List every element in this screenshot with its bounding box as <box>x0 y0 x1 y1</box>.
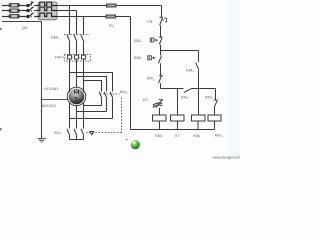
tap C to KM-delta left <box>84 81 102 92</box>
PE down wire <box>41 22 43 139</box>
svg-text:KM△: KM△ <box>215 133 224 138</box>
fuse L3 body <box>9 14 19 18</box>
svg-text:FU: FU <box>109 24 114 28</box>
KT coil feed <box>177 89 179 116</box>
svg-text:KM△: KM△ <box>147 77 156 82</box>
breaker element L2 <box>38 7 57 10</box>
svg-text:KT: KT <box>143 97 149 102</box>
svg-text:KMY: KMY <box>205 96 213 101</box>
breaker block QF body <box>38 2 57 20</box>
fuse left bodies <box>9 3 19 18</box>
KM1 self-hold contact <box>196 51 199 116</box>
QS linkage dashed <box>31 1 33 17</box>
wire phase C down to motor <box>83 59 85 129</box>
switch QS pole 1 <box>27 4 29 6</box>
SB2 NO contact <box>158 51 161 76</box>
wire L3 block to control <box>57 16 131 18</box>
breaker element L1 <box>38 2 57 5</box>
wire L2 to QS <box>20 10 27 12</box>
FR linkage dashes <box>72 56 82 58</box>
thermal relay FR heater B <box>75 55 79 59</box>
svg-text:KMY: KMY <box>181 95 189 100</box>
wire L3 to QS <box>20 16 27 18</box>
FR NC contact <box>160 17 164 37</box>
wire L1 block to control tap <box>57 5 162 7</box>
svg-text:KM1: KM1 <box>51 34 59 40</box>
contactor KM-Y pole B <box>74 129 77 140</box>
node B bus <box>161 88 216 90</box>
wire phase A down to motor <box>69 59 71 129</box>
control left vertical from FU2 <box>130 17 132 130</box>
svg-text:KT: KT <box>175 134 181 138</box>
motor M sphere <box>67 87 86 106</box>
PE line <box>2 21 42 23</box>
star point wire <box>70 139 84 141</box>
KM-Y NO aux contact horizontal <box>184 88 192 92</box>
green icon <box>131 140 140 149</box>
SB1 button actuator <box>150 38 155 42</box>
contactor KM1 main pole A <box>67 35 70 55</box>
wire L1 to QS <box>20 5 27 7</box>
interlock triangle <box>90 132 94 135</box>
control rail right turn down <box>161 6 163 18</box>
wire L3 supply <box>2 16 9 18</box>
svg-text:KM△: KM△ <box>120 90 129 95</box>
KM1 linkage dashed <box>64 34 90 36</box>
breaker element L3 <box>38 13 57 16</box>
svg-text:KM1: KM1 <box>193 134 201 139</box>
wire QS to breaker block L1 <box>34 5 38 7</box>
svg-text:FR: FR <box>147 19 152 24</box>
contactor KM-delta pole 2 <box>104 92 107 112</box>
contactor KM1 main pole C <box>81 35 84 55</box>
bottom bus <box>131 129 215 131</box>
fuse L2 body <box>9 9 19 13</box>
svg-text:FR: FR <box>55 55 60 60</box>
fuse FU control 2 <box>106 15 116 18</box>
link delta2 to phase B <box>77 111 107 113</box>
speck <box>126 139 127 140</box>
tap A to KM-delta right <box>70 73 113 92</box>
wire L2 block to drop <box>57 10 77 12</box>
wire L2 supply <box>2 10 9 12</box>
svg-text:QS: QS <box>22 25 28 30</box>
svg-text:KM1: KM1 <box>186 68 194 74</box>
wire drop phase B <box>76 11 78 35</box>
FR dashed box <box>64 55 90 62</box>
switch QS pole 3 <box>27 15 29 17</box>
thermal relay FR heater C <box>82 55 86 59</box>
contactor KM-delta pole 1 <box>99 92 102 106</box>
coil KM-delta <box>208 115 221 121</box>
link delta3 to phase A <box>70 118 113 120</box>
coil KM1 <box>192 115 206 121</box>
KM-delta linkage dashed <box>100 93 120 95</box>
svg-text:W2U2V2: W2U2V2 <box>42 104 56 108</box>
svg-text:KMY: KMY <box>54 131 62 136</box>
node A bus <box>161 50 199 52</box>
contactor KM-Y pole A <box>67 129 70 140</box>
FR trip symbol <box>162 18 166 22</box>
fuse L1 body <box>9 3 19 7</box>
KM-Y interlock dashed <box>86 132 122 134</box>
control circuit <box>106 4 221 130</box>
contactor KM1 main pole B <box>74 35 77 55</box>
switch QS pole 2 <box>27 9 29 11</box>
thermal relay FR heater A <box>68 55 72 59</box>
KT delay NC contact <box>156 100 163 115</box>
KM-delta NC interlock contact <box>159 76 163 89</box>
svg-text:www.diangon.com: www.diangon.com <box>213 155 241 159</box>
coil KT <box>171 115 185 121</box>
FR label dash <box>61 56 65 58</box>
tap B to KM-delta mid <box>77 77 107 92</box>
KT delay arcs <box>153 103 162 108</box>
link delta1 to phase C <box>84 105 102 107</box>
coil KM-Y <box>153 115 167 121</box>
svg-text:SB2: SB2 <box>134 55 142 60</box>
SB1 NC contact <box>159 37 163 50</box>
wire drop phase A <box>69 6 71 35</box>
motor frame wire <box>42 99 68 101</box>
wire QS to breaker block L2 <box>34 10 38 12</box>
wire drop phase C <box>83 17 85 35</box>
wire L1 supply <box>2 5 9 7</box>
svg-text:U1V1W1: U1V1W1 <box>44 87 58 91</box>
wire phase B down to motor <box>76 59 78 129</box>
KM-Y NC contact (delta branch) <box>214 89 218 116</box>
ground <box>37 139 45 143</box>
wire QS to breaker block L3 <box>34 16 38 18</box>
coil bottom wires <box>160 121 215 130</box>
svg-text:KMY: KMY <box>155 134 163 139</box>
edge marks <box>0 28 2 30</box>
fuse FU control 1 <box>107 4 117 7</box>
contactor KM-Y pole C <box>81 129 84 140</box>
contactor KM-delta pole 3 <box>110 92 113 119</box>
SB2 button actuator <box>148 56 153 60</box>
svg-text:SB1: SB1 <box>134 38 142 43</box>
KM-delta interlock dashed vertical <box>121 98 123 133</box>
